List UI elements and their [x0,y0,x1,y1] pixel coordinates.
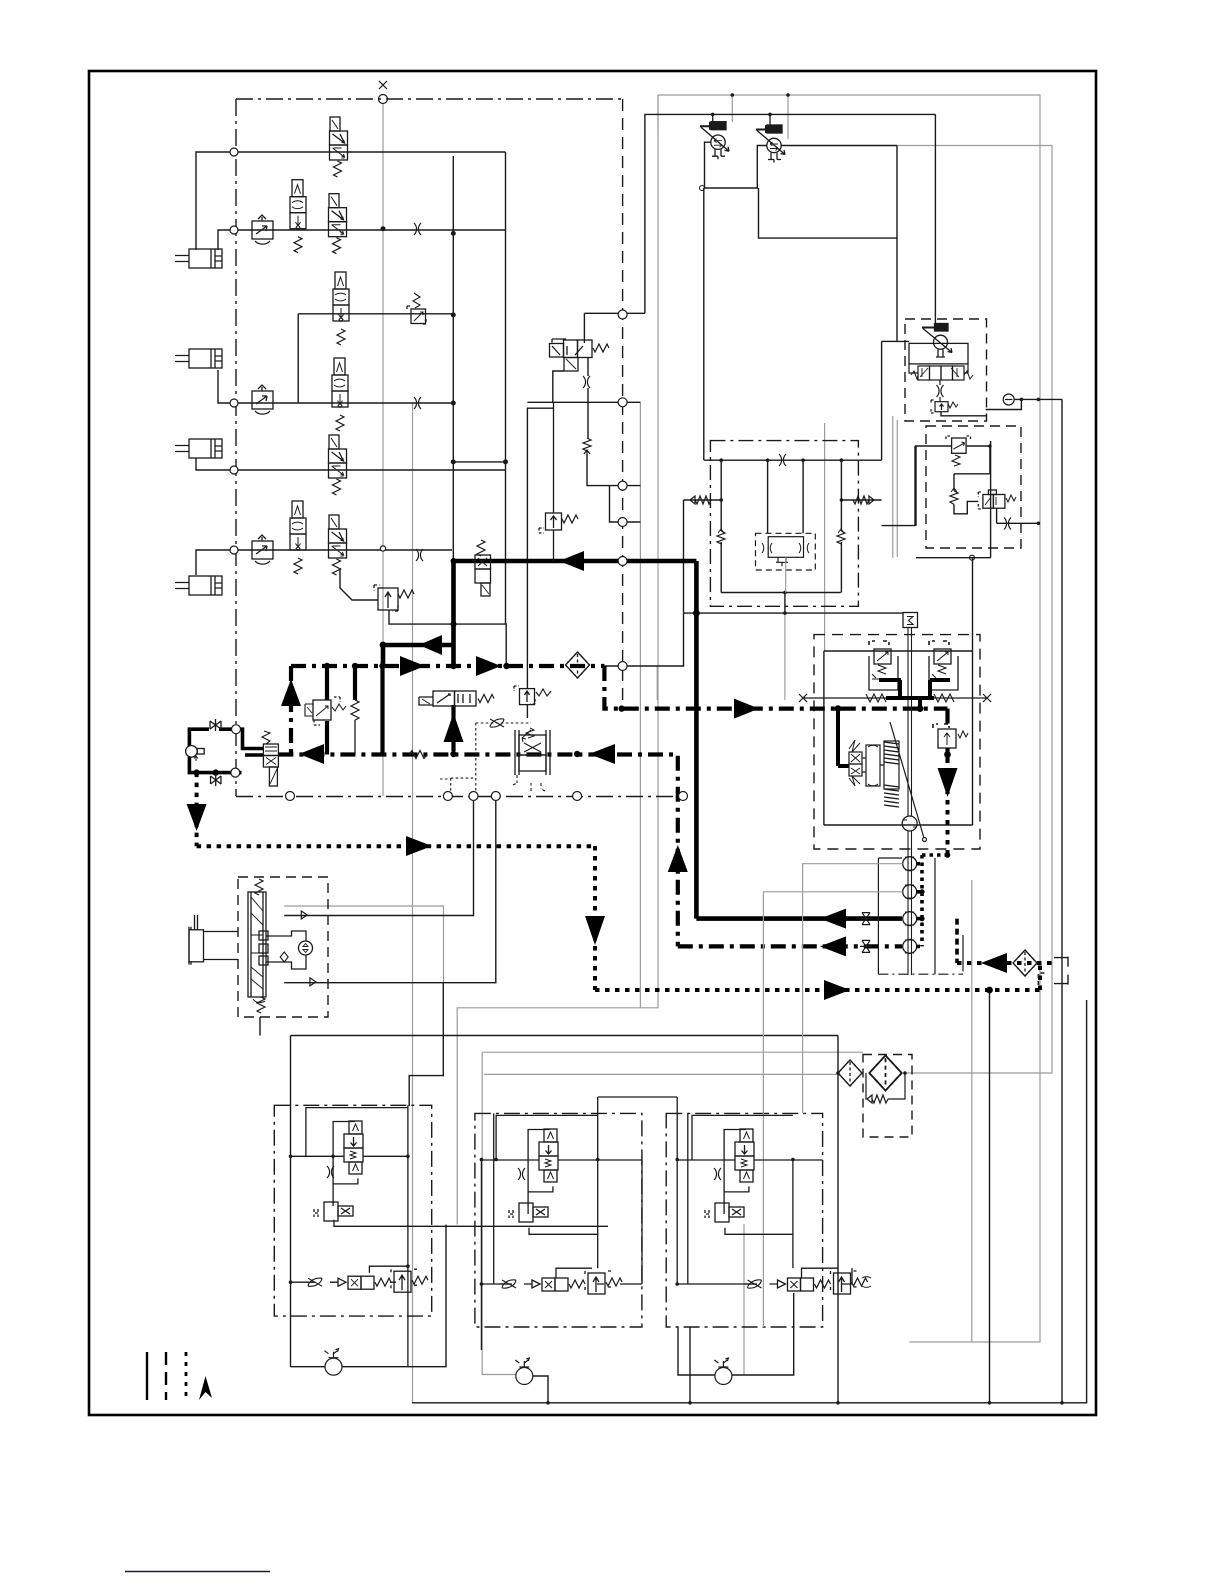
right inner spring [837,529,845,544]
station lower left vertical [914,446,916,526]
restrictor row4 [414,397,421,409]
chain arrow left lower 1 [299,744,324,764]
bus link wire [453,461,505,463]
flow control F2 row2 [252,215,273,244]
wire row1 top-left bank [196,152,506,250]
block riser top link [882,340,897,342]
manifold relief right [933,724,968,748]
wire row3 [298,313,453,315]
station dashed box lower [926,426,1021,548]
wire 5/3 valve stem [583,313,585,343]
steering dashed box [238,877,328,1017]
pump section chain box [710,441,858,607]
gauge2 wires [533,1376,548,1403]
node dots top wire [711,93,790,116]
fine dotted pilot network [440,723,531,791]
subcircuit1 solenoid [314,1202,353,1221]
thick stub to servo [838,709,849,766]
relief drain wire [389,610,454,624]
restrictor below 5/3 [583,376,590,388]
drain arrow down left [187,804,207,831]
left check spring [690,496,711,504]
gray bus vertical from top junction [382,103,384,796]
pump bottom rail junction dots [193,769,218,775]
station 4-box pilot row [909,364,973,380]
right check wire [841,499,881,501]
block top restrictor [779,454,786,466]
relief valve mid left [539,513,578,533]
left inner spring [717,529,725,544]
station box bottom [916,557,991,559]
steering check bottom [310,978,316,986]
gauge G2 [515,1358,533,1385]
subcircuit1 wires [291,1105,609,1366]
pilot relief station [978,490,1016,509]
drop to station [897,146,909,342]
subcircuit1 valve column [344,1121,363,1174]
pump circle [186,746,205,762]
subcircuit3 lower valves [745,1271,868,1294]
bowtie on thick return [860,913,872,925]
station out wire y523 [997,522,1039,524]
sigma double line [908,628,912,976]
manifold inner box right [972,648,974,825]
subcircuit3 inner frame [692,1115,793,1160]
drain return upper [957,961,1053,965]
bank chain box top edge [236,98,623,100]
steering internal diamond [280,952,288,962]
relief mid below [526,704,528,718]
gray stub right valve [787,95,789,139]
block inner right drop [840,460,842,531]
tap wire to chain [454,624,507,665]
pilot branch spring vertical [351,700,359,755]
drain junction dot [986,987,993,994]
relief RV6 [374,585,414,611]
wire relief mid drop2 [553,402,555,561]
gray wire to valve stem [731,95,733,122]
thick return to circle chain [696,916,902,921]
solenoid valve 5/3 center top [550,339,610,371]
valve M1 stem [713,114,770,125]
drain dotted drop solid part [989,990,991,1403]
station node dots [988,398,1040,525]
bank dashed right edge [622,99,624,709]
subcircuit2 solenoid [509,1203,548,1222]
bank chain bottom edge [236,796,683,798]
restrictor row6 [416,549,423,561]
steering lower pilot [284,796,496,983]
gray return from manual valve 2 [897,146,1052,1074]
circle chain gauge stack [903,857,917,954]
station check drop [953,474,955,491]
manifold dashed box [814,635,980,849]
chain arrow right 3 [734,699,759,719]
subcircuit3 restrictor [714,1168,721,1180]
steering tank stub [259,1017,261,1036]
pilot chain left drop [289,666,293,754]
flow control F4 row4 [252,385,273,414]
gray second mid vertical [656,666,658,700]
right tall vertical [1061,399,1063,1402]
valve53 drop below restrictor [587,388,589,438]
box3 drop to bus [689,1327,691,1403]
subcircuit2 node dots [480,1158,600,1286]
gray mid vertical [639,402,641,1008]
junction dot thick chain top [451,558,457,564]
gray center pump column [784,613,786,700]
wire top feed manual valves [645,114,936,313]
valve VC row6 [290,501,306,574]
drawing border frame [89,71,1096,1415]
drain long bottom horizontal [595,988,1040,992]
subcircuit1 inner frame [306,1108,408,1157]
junction circles on bank lines [230,148,386,554]
station manual actuator [922,324,952,353]
bowtie on chain return [860,940,872,952]
axle lock cylinder block [756,533,816,570]
bottom bus [414,1000,1087,1403]
footer rule line [125,1571,270,1573]
manual valve1 return loop [705,142,767,188]
twin filter dashed box [863,1055,912,1138]
drain tap dashed to filter line [955,919,959,963]
right relief assembly [929,641,958,690]
pressure gauge station [1003,394,1014,405]
valve53 right drop [587,357,589,376]
drain line left vertical [195,773,199,847]
bank chain box left edge [235,99,237,796]
drain mid vertical [593,846,597,990]
chain crossing circles on pump rails [231,725,241,777]
chain arrow down manifold [938,768,958,797]
drain riser left of manifold [604,500,683,666]
pilot relief on gray column [514,686,551,705]
block center drop [784,593,786,614]
station link y473 [954,473,990,475]
wire row5 [196,458,506,470]
relief mid drop [527,408,553,688]
station lower wire y525 [882,525,915,527]
subcircuit1 node dots [289,1155,410,1284]
node circle x mark [379,81,388,104]
cross line with x ends [799,694,991,702]
relief row6 link wire [340,568,378,600]
gray center link [785,557,787,592]
pump block top manifold [704,459,882,461]
restrictor row2 [414,223,421,235]
pilot chain valve drop [451,705,455,754]
chain connector box [878,858,963,974]
subcircuit2 inner frame [496,1115,598,1160]
drain arrow right top [406,836,432,856]
gray inside pump block [824,423,826,652]
gray line left-center descent [457,95,658,1225]
gauge3 right wire [732,1293,794,1375]
spring check station [950,488,958,504]
right check spring [853,496,874,504]
station dashed box upper [905,319,987,421]
cylinder C3 [175,439,222,458]
pilot chain manifold right drop [945,709,949,727]
subcircuit2 wires [481,1097,677,1350]
block accumulator feeds [767,460,769,533]
pump control valve [262,731,278,786]
station column wires [939,380,941,402]
block right riser [881,341,883,460]
chain arrow right 2 [476,656,501,676]
large filter diamond [869,1055,901,1090]
solenoid valve VB row2 [329,194,347,254]
gray supply top horizontal [658,95,1040,1342]
filter node dots [836,1071,907,1075]
gray feed to twin filter left [484,1073,837,1075]
variable restrictor on dotted [490,719,504,727]
steering control spool [248,879,268,1013]
subcircuit1 restrictor [327,1166,334,1178]
drain vertical left block [703,188,705,460]
block node dots [719,458,843,614]
gauge3 left wire [678,1327,715,1375]
pump block thick frame [189,729,263,772]
steering feedback motor [266,931,313,969]
station valve body [909,343,968,364]
manifold inner box [823,651,825,825]
chain arrow left lower 2 [589,744,615,764]
drain bracket dashed corner [1038,973,1045,985]
cylinder C1 [175,249,222,268]
arrowhead on return line [820,909,846,929]
pilot reducing branch left [325,666,329,700]
legend dotted line style sample [185,1352,188,1400]
thick stubs under reliefs [879,680,950,698]
chain arrow up bottom [668,845,688,872]
upper link valve2 drain [759,188,898,238]
legend arrow sample [199,1376,212,1400]
junction dot thick at drain tap [451,621,457,627]
bypass spring check [867,1095,888,1103]
manual reducing valve M1 [700,122,729,160]
thick main vertical [694,561,699,919]
valve53 lower wire [553,371,564,402]
block inner right lower [840,542,842,593]
check bowtie bottom [211,774,222,786]
subcircuit box 2 [475,1113,642,1327]
gray drop joins bottom [412,1402,414,1404]
small circle on return loop [700,186,705,191]
solenoid valve on supply line [475,540,491,596]
station solid left [915,446,917,526]
cylinder C2 [175,349,222,368]
subcircuit2 restrictor [518,1168,525,1180]
chain junction lower [619,705,625,711]
block drain bottom [683,612,903,614]
steering drop line [442,983,444,1036]
thick section of cross line [886,698,934,709]
valve V4 row4 [332,358,348,431]
station solid right [990,441,992,558]
chain arrow up 1 [281,679,301,706]
manifold inner box top [824,650,973,652]
drain arrow right bottom [824,980,850,1000]
gray right column [763,864,971,1342]
legend solid line style sample [146,1352,148,1400]
box1 feed jog [409,1036,443,1107]
spring check mid column [583,438,591,454]
drain right riser [1038,963,1042,990]
gauge G1 [325,1349,343,1376]
drain bracket [1054,957,1068,985]
pilot chain lower continue [617,755,678,947]
station relief drop [996,508,998,523]
box1 left bus [290,1036,292,1367]
horizontal pilot valve on chain [419,691,494,706]
pilot spring branch [353,666,357,700]
wire y402 [527,401,640,403]
proportional reducing valve on chain [513,728,550,791]
block inner left lower [720,542,722,593]
subcircuit box 3 [666,1113,822,1327]
steering check top [301,911,307,919]
block inner left drop [720,460,722,531]
subcircuit3 valve column [735,1129,754,1182]
subcircuit box 1 [274,1105,431,1316]
station relief to box edge [941,412,986,416]
pilot chain to manifold [604,666,947,709]
chain bottom junction circles [286,792,688,801]
gray pump station vertical [896,420,898,557]
pilot chain main horizontal [291,664,604,668]
spring check drop [587,454,640,486]
gray steering pilot [284,906,443,983]
pilot pressure reducing valve [305,697,346,725]
drain arrow down mid [585,916,605,945]
chain junction dots [324,663,330,669]
solenoid valve V5 row5 [329,435,347,495]
manual reducing valve M2 [756,125,785,163]
station relief [931,400,958,413]
drain line horizontal top [197,844,595,848]
station restrictor out [1004,518,1011,530]
drain manifold dotted drop [946,800,950,855]
solenoid stem station [934,114,936,323]
bus node dots [381,227,507,464]
swash diagonal lever [890,722,927,842]
dotted rail dots [919,852,950,921]
chain arrow left bottom [820,936,846,956]
gauge G3 [714,1358,732,1385]
gauge1 right wire [342,1225,446,1367]
gauge wire right station [1014,398,1062,400]
gray under box3 [743,1224,745,1375]
valve V3 row3 [333,272,349,345]
station restrictor [937,385,944,397]
gauge1 wire [291,1366,326,1368]
long link y1035 [291,1035,839,1037]
wire row3 drop [297,314,299,403]
dotted rail beside circles [917,855,948,946]
drain arrow left return [981,953,1007,973]
check bowtie top [210,719,221,731]
arrowhead on main line [559,551,584,571]
valve VA row2 [290,180,306,253]
subcircuit1 lower valves [305,1269,428,1292]
left check wire [684,499,722,501]
left relief assembly [869,641,898,690]
station bottom circle [970,555,975,560]
gray under box1 [412,403,414,1403]
gray station left vertical [892,416,894,558]
pilot reducing branch left lower [325,721,329,755]
subcircuit2 valve column [539,1129,558,1182]
relief RV3 row3 [407,293,426,324]
solenoid valve VD row6 [329,515,347,575]
solenoid valve V1 row1 [330,117,348,177]
manifold pump circle [902,816,917,831]
station drop to manifold [972,558,974,648]
wire row6 [196,550,452,575]
pilot chain lower horizontal [278,752,617,756]
steering cylinder [189,915,238,965]
thick main pressure line horizontal [454,559,697,564]
wire y522 [610,486,641,522]
gray filter riser [482,1052,516,1374]
station reduce left wire [915,445,952,447]
steering upper pilot [284,796,473,916]
chain arrow right 1 [400,656,425,676]
flow control F6 row6 [252,535,273,564]
manual valve2 output [781,145,897,147]
servo valve stack [849,740,862,786]
thick drop to chain [381,645,386,666]
cylinder C4 [175,576,222,595]
bank vertical bus A [452,156,454,561]
zigzag on chain line [409,751,427,759]
gauge jog [986,399,1022,409]
subcircuit3 node dots [675,1158,794,1286]
subcircuit3 solenoid [705,1203,744,1222]
bottom bus node dots [546,1401,1064,1405]
station reduce right wire [966,446,990,474]
thick branch column [451,561,456,666]
pilot chain bottom run [678,944,902,948]
gray upper filter feed [482,1051,863,1053]
pilot chain manifold below relief [945,748,949,800]
manifold inner box bottom [824,824,973,826]
arrowhead on branch line [419,635,442,655]
block bottom rail [721,592,841,594]
wire valve link horizontal [584,312,645,314]
thick branch arrowline [383,643,454,648]
subcircuit2 lower valves [499,1271,622,1294]
station check below [954,501,978,513]
junction dot [693,610,700,617]
dashed-line crossing circles [618,310,627,671]
subcircuit3 wires [677,1113,871,1287]
thick solid through chain [380,666,384,755]
wire row4 [218,370,453,403]
filter drop to bus [837,1036,839,1403]
reducing valve lower station [946,436,971,466]
wire row2 [218,230,506,250]
legend long-dash line style sample [165,1352,167,1400]
sigma summation box [903,613,918,628]
small filter diamond [838,1060,862,1086]
junction dot thick at 383 [380,642,387,649]
bank vertical bus B [505,152,507,624]
filter diamond on chain [566,652,590,678]
block accumulator feed 2 [802,460,804,533]
